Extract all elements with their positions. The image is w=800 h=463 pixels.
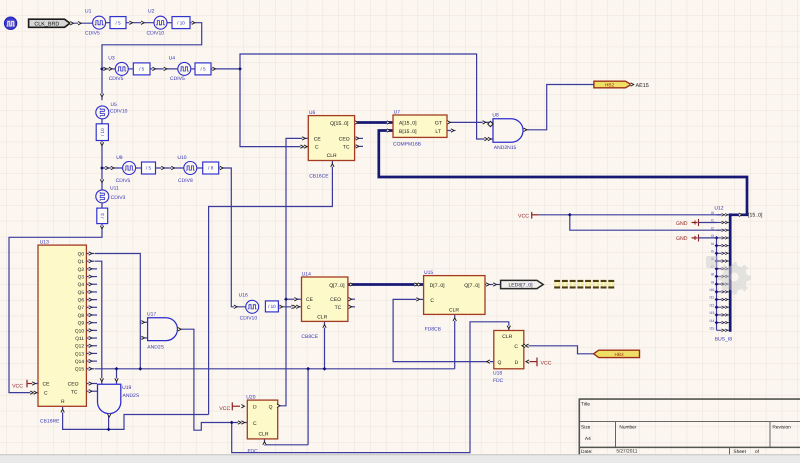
svg-text:I9: I9 [711, 280, 714, 284]
svg-text:CLR: CLR [449, 307, 459, 313]
svg-text:U7: U7 [394, 109, 401, 115]
svg-text:Q12: Q12 [75, 344, 84, 350]
svg-text:HB2: HB2 [605, 83, 615, 88]
svg-text:U5: U5 [111, 102, 118, 108]
svg-text:CLR: CLR [327, 153, 337, 159]
svg-text:AE15: AE15 [636, 83, 649, 89]
svg-text:AND2N15: AND2N15 [494, 145, 517, 151]
svg-text:R: R [61, 399, 65, 405]
svg-text:U15: U15 [424, 270, 433, 276]
svg-text:Q3: Q3 [78, 274, 85, 280]
svg-text:GND: GND [676, 236, 688, 242]
svg-text:U2: U2 [148, 8, 155, 14]
svg-text:U4: U4 [169, 55, 176, 61]
svg-text:C: C [307, 305, 311, 311]
svg-text:CDIV5: CDIV5 [116, 178, 131, 184]
svg-text:U19: U19 [122, 385, 131, 391]
svg-text:Q: Q [269, 404, 273, 410]
svg-text:I15: I15 [710, 327, 715, 331]
svg-text:I14: I14 [710, 319, 715, 323]
svg-text:U3: U3 [108, 55, 115, 61]
svg-text:A[15..0]: A[15..0] [399, 121, 417, 127]
svg-text:U20: U20 [246, 394, 255, 400]
svg-text:U17: U17 [147, 311, 156, 317]
svg-text:GND: GND [676, 221, 688, 227]
svg-text:I10: I10 [710, 288, 715, 292]
svg-text:Q0: Q0 [78, 251, 85, 257]
svg-text:I8: I8 [711, 273, 714, 277]
svg-text:I0: I0 [711, 211, 714, 215]
svg-text:CDIV8: CDIV8 [178, 178, 193, 184]
svg-text:TC: TC [335, 305, 342, 311]
svg-text:D: D [253, 404, 257, 410]
svg-text:CLR: CLR [258, 432, 268, 438]
svg-text:B[15..0]: B[15..0] [399, 129, 417, 135]
svg-text:CDIV5: CDIV5 [170, 76, 185, 82]
svg-text:Q[7..0]: Q[7..0] [464, 283, 480, 289]
svg-text:VCC: VCC [12, 384, 23, 390]
svg-text:D[7..0]: D[7..0] [430, 283, 446, 289]
svg-text:TC: TC [71, 389, 78, 395]
svg-text:Q[15..0]: Q[15..0] [330, 121, 349, 127]
svg-text:I11: I11 [710, 296, 715, 300]
svg-text:Title: Title [581, 402, 590, 408]
svg-text:CDIV10: CDIV10 [110, 109, 128, 115]
svg-text:C: C [44, 391, 48, 397]
svg-text:Q11: Q11 [75, 336, 84, 342]
svg-text:CDIV10: CDIV10 [147, 30, 165, 36]
svg-text:HB3: HB3 [614, 352, 624, 357]
svg-text:/ 3: / 3 [100, 213, 105, 219]
svg-text:AND2S: AND2S [123, 393, 140, 399]
svg-text:CDIV5: CDIV5 [109, 76, 124, 82]
svg-text:AND2S: AND2S [147, 345, 164, 351]
svg-text:I12: I12 [710, 303, 715, 307]
svg-text:Q10: Q10 [75, 328, 84, 334]
svg-text:FD8CB: FD8CB [425, 327, 442, 333]
svg-text:VCC: VCC [541, 360, 552, 366]
svg-text:BUS_I8: BUS_I8 [715, 336, 732, 342]
svg-text:Q[7..0]: Q[7..0] [329, 283, 345, 289]
svg-text:Q4: Q4 [78, 282, 85, 288]
svg-text:I2: I2 [711, 226, 714, 230]
svg-text:Q5: Q5 [78, 290, 85, 296]
svg-text:C: C [430, 298, 434, 304]
svg-text:/ 5: / 5 [146, 166, 152, 171]
svg-text:CDIV10: CDIV10 [240, 315, 258, 321]
svg-text:Q8: Q8 [78, 313, 85, 319]
svg-text:5/27/2011: 5/27/2011 [616, 449, 637, 455]
svg-text:C: C [514, 344, 518, 350]
svg-text:[15..0]: [15..0] [748, 213, 763, 219]
svg-text:Q15: Q15 [75, 367, 84, 373]
svg-text:C: C [253, 421, 257, 427]
svg-text:CEO: CEO [68, 382, 79, 388]
svg-text:/ 5: / 5 [115, 20, 121, 25]
svg-text:GT: GT [435, 121, 442, 127]
svg-text:Q9: Q9 [78, 321, 85, 327]
svg-text:CLR: CLR [502, 334, 512, 340]
svg-text:Q7: Q7 [78, 305, 85, 311]
svg-text:Revision: Revision [772, 424, 791, 430]
svg-text:I4: I4 [711, 242, 714, 246]
svg-text:CB16RE: CB16RE [40, 419, 60, 425]
svg-text:CEO: CEO [339, 137, 350, 143]
svg-text:CE: CE [306, 297, 314, 303]
svg-text:/ 10: / 10 [177, 20, 185, 25]
svg-text:U13: U13 [40, 239, 49, 245]
svg-text:D: D [515, 360, 519, 366]
svg-text:Q13: Q13 [75, 351, 84, 357]
svg-text:/ 10: / 10 [268, 304, 276, 309]
svg-text:CLR: CLR [317, 314, 327, 320]
svg-text:/ 10: / 10 [100, 128, 105, 136]
svg-text:Q1: Q1 [78, 259, 85, 265]
svg-text:U6: U6 [309, 110, 316, 116]
svg-text:CEO: CEO [330, 297, 341, 303]
svg-text:FDC: FDC [248, 448, 259, 454]
svg-text:Number: Number [619, 424, 636, 430]
svg-text:U11: U11 [110, 185, 119, 191]
svg-text:TC: TC [343, 144, 350, 150]
svg-text:CLK_BRD: CLK_BRD [34, 21, 59, 27]
svg-text:LED8[7..0]: LED8[7..0] [508, 283, 533, 289]
svg-text:CDIV5: CDIV5 [85, 30, 100, 36]
svg-text:LT: LT [435, 129, 441, 135]
svg-text:COMPM16B: COMPM16B [393, 142, 422, 148]
svg-text:C: C [315, 145, 319, 151]
svg-text:VCC: VCC [219, 406, 230, 412]
svg-text:CE: CE [314, 137, 322, 143]
svg-text:CE: CE [43, 382, 51, 388]
svg-text:U16: U16 [239, 292, 248, 298]
svg-text:U1: U1 [85, 8, 92, 14]
svg-text:Size: Size [581, 424, 591, 430]
svg-text:I13: I13 [710, 311, 715, 315]
svg-text:U18: U18 [493, 371, 502, 377]
svg-text:/ 8: / 8 [208, 166, 214, 171]
svg-text:FDC: FDC [493, 378, 504, 384]
svg-text:/ 5: / 5 [139, 67, 145, 72]
svg-text:U14: U14 [302, 271, 311, 277]
svg-text:CB16CE: CB16CE [309, 173, 329, 179]
svg-text:U9: U9 [116, 155, 123, 161]
svg-text:U12: U12 [714, 205, 723, 211]
svg-text:Q2: Q2 [78, 267, 85, 273]
svg-text:CDIV3: CDIV3 [111, 195, 126, 201]
svg-text:U8: U8 [492, 113, 499, 119]
svg-text:A4: A4 [585, 436, 591, 442]
svg-text:/ 5: / 5 [200, 67, 206, 72]
svg-text:U10: U10 [177, 155, 186, 161]
svg-text:VCC: VCC [518, 214, 529, 220]
svg-text:Q14: Q14 [75, 359, 84, 365]
svg-text:I5: I5 [711, 250, 714, 254]
svg-text:Q: Q [498, 360, 502, 366]
svg-text:Q6: Q6 [78, 298, 85, 304]
svg-text:CB8CE: CB8CE [301, 334, 318, 340]
